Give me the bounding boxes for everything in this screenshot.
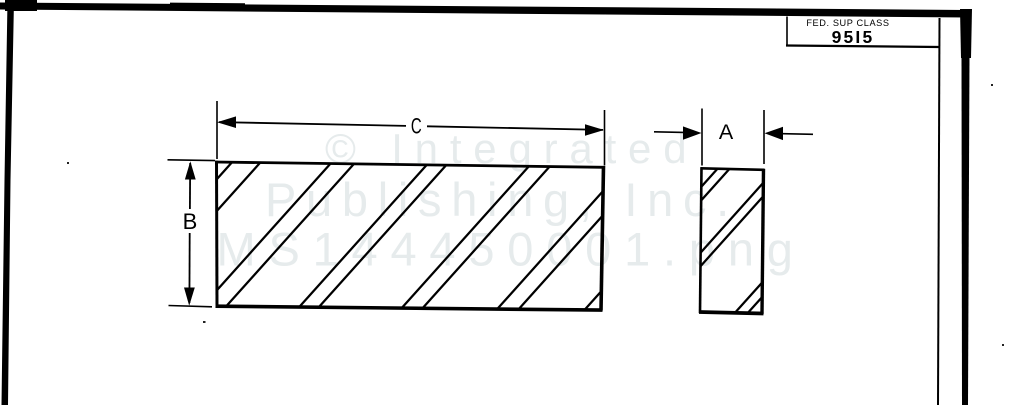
dimension B arrowhead bottom [184,288,195,306]
top border bump right [595,8,650,14]
svg-text:B: B [183,209,198,234]
hatch pair 5 line 1 [478,150,640,330]
dimension A line right [783,133,813,136]
small strip outline right [762,169,764,314]
small strip outline left [700,167,702,313]
dimension B arrowhead top [185,161,196,179]
hatch pair 5 line 2 [500,150,662,330]
small hatch pair 3 line 1 [720,150,882,330]
hatch pair 1 line 1 [82,150,244,330]
scan speck 1 [67,162,69,164]
hatch pair 6 line 2 [582,150,744,330]
main plate outline top [215,162,605,167]
small hatch pair 2 line 1 [631,150,793,330]
right thick border upper [960,9,972,58]
fed sup class box left edge [786,17,788,47]
dimension A extension line left [701,109,703,166]
top border [0,3,967,18]
small hatch pair 1 line 2 [585,150,747,330]
dimension A extension line right [763,110,765,164]
hatch pair 4 line 1 [382,150,544,330]
main plate hatch lines [82,150,744,330]
right thick border lower [962,55,970,405]
top border bump mid [170,3,245,10]
dimension A arrowhead left [683,126,702,139]
small strip outline top [701,168,765,170]
hatch pair 2 line 2 [205,150,367,330]
dimension B line lower segment [188,233,190,303]
top border blob left [5,0,37,11]
scan speck 4 [1002,344,1004,346]
hatch pair 3 line 2 [298,150,460,330]
dimension B extension line top [168,159,216,162]
small strip hatch lines [573,150,894,330]
hatch pair 4 line 2 [403,150,565,330]
small strip outline bottom [699,312,764,314]
dimension C extension line left [216,101,218,159]
small hatch pair 2 line 2 [643,150,805,330]
dimension C arrowhead right [585,124,604,136]
hatch pair 2 line 1 [181,150,343,330]
main plate outline bottom [216,306,603,310]
scan speck 3 [991,84,993,86]
scan speck 2 [203,321,206,323]
main plate outline right [601,166,604,311]
fed sup class box bottom edge [786,46,939,48]
dimension C extension line right [604,110,606,166]
hatch pair 1 line 2 [110,150,272,330]
svg-text:C: C [411,114,422,139]
dimension C line right segment [427,126,603,130]
svg-text:95I5: 95I5 [832,27,875,47]
hatch pair 3 line 1 [279,150,441,330]
left border [2,0,15,405]
dimension A line left [654,131,684,134]
dimension A arrowhead right [765,127,784,140]
main plate outline left [215,161,219,308]
dimension B extension line bottom [169,306,213,307]
dimension C line left segment [219,122,406,126]
dimension B line upper segment [189,163,191,209]
svg-text:A: A [719,120,734,144]
small hatch pair 1 line 1 [573,150,735,330]
right inner thin border [938,18,940,405]
hatch pair 6 line 1 [567,150,729,330]
small hatch pair 3 line 2 [733,150,895,330]
dimension C arrowhead left [217,116,236,128]
